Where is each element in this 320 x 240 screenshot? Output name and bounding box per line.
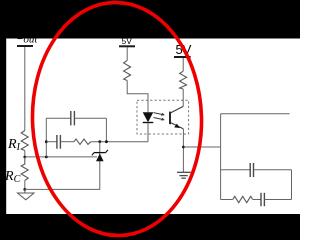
resistor R3 (LED pullup) (124, 60, 131, 80)
node dot TL431 cathode (98, 140, 101, 143)
wire RI to node (24, 151, 26, 158)
phototransistor Q1 (170, 106, 183, 128)
wire R3 to LED anode (127, 81, 148, 113)
wire RC loop top left (221, 169, 251, 171)
node dot left loop bottom (45, 156, 48, 159)
LED D1 (143, 112, 154, 141)
wire output to right (221, 113, 290, 115)
wire mid branch to LED cathode (91, 141, 148, 143)
black border bottom (0, 214, 300, 240)
node dot RI/RC junction (23, 156, 26, 159)
wire RC loop top right (254, 169, 292, 171)
resistor RI (21, 131, 28, 151)
supply bar 5V 2 (174, 56, 191, 58)
wire: loop right vertical (105, 118, 107, 142)
wire mid branch to cap (46, 141, 57, 143)
wire REF: junction to TL431 ref (25, 156, 97, 158)
wire emitter down to ground (182, 129, 184, 173)
wire output vertical (220, 114, 222, 200)
black border left (0, 39, 6, 215)
capacitor C3 (right loop top) (250, 163, 253, 177)
wire C4 to right vertical (264, 199, 291, 201)
wire 5V2 to R4 (182, 58, 184, 71)
resistor R2 (mid branch) (74, 139, 91, 144)
wire R4 to collector (182, 89, 184, 106)
red annotation ellipse (29, 0, 204, 237)
wire cap to resistor (60, 141, 74, 143)
black border top (0, 0, 300, 39)
wire: loop top left segment (46, 117, 71, 119)
ground (triangle) (18, 189, 35, 199)
node dot loop right (105, 140, 108, 143)
supply bar 5V 1 (119, 45, 135, 47)
capacitor C1 (top branch) (71, 111, 75, 125)
wire: TL431 anode return (25, 161, 100, 189)
opto light arrows (154, 113, 165, 120)
resistor R4 (collector pullup) (180, 71, 187, 89)
wire 5V1 to R3 (126, 47, 128, 60)
optocoupler dashed box (137, 100, 189, 134)
node dot mid branch left (45, 140, 48, 143)
capacitor C2 (mid branch) (57, 135, 61, 149)
wire: loop top right segment (74, 117, 106, 119)
wire: left vertical of compensation loop (45, 118, 47, 157)
ground (bars) under emitter (177, 172, 191, 178)
wire R5 to C4 (253, 199, 261, 201)
wire: -out rail down to RI (24, 47, 26, 131)
wire emitter to output network (183, 146, 220, 148)
wire RC to ground junction (24, 181, 26, 190)
resistor RC (21, 157, 28, 181)
wire loop bottom left (221, 199, 233, 201)
capacitor C4 (right loop bottom) (261, 193, 264, 206)
TL431 U1 (92, 142, 108, 162)
wire right loop right vertical (291, 170, 293, 200)
resistor R5 (right loop) (233, 196, 253, 202)
terminal bar -out (17, 45, 33, 47)
node dot RC/ground (23, 188, 26, 191)
node dot emitter (182, 146, 185, 149)
